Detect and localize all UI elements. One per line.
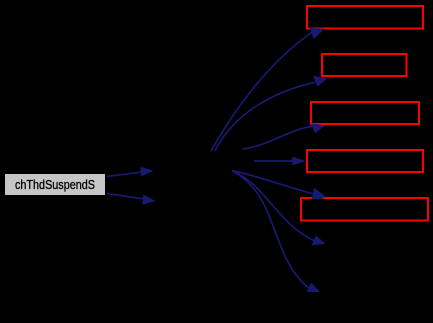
svg-text:chThdSuspendS: chThdSuspendS	[15, 178, 95, 192]
